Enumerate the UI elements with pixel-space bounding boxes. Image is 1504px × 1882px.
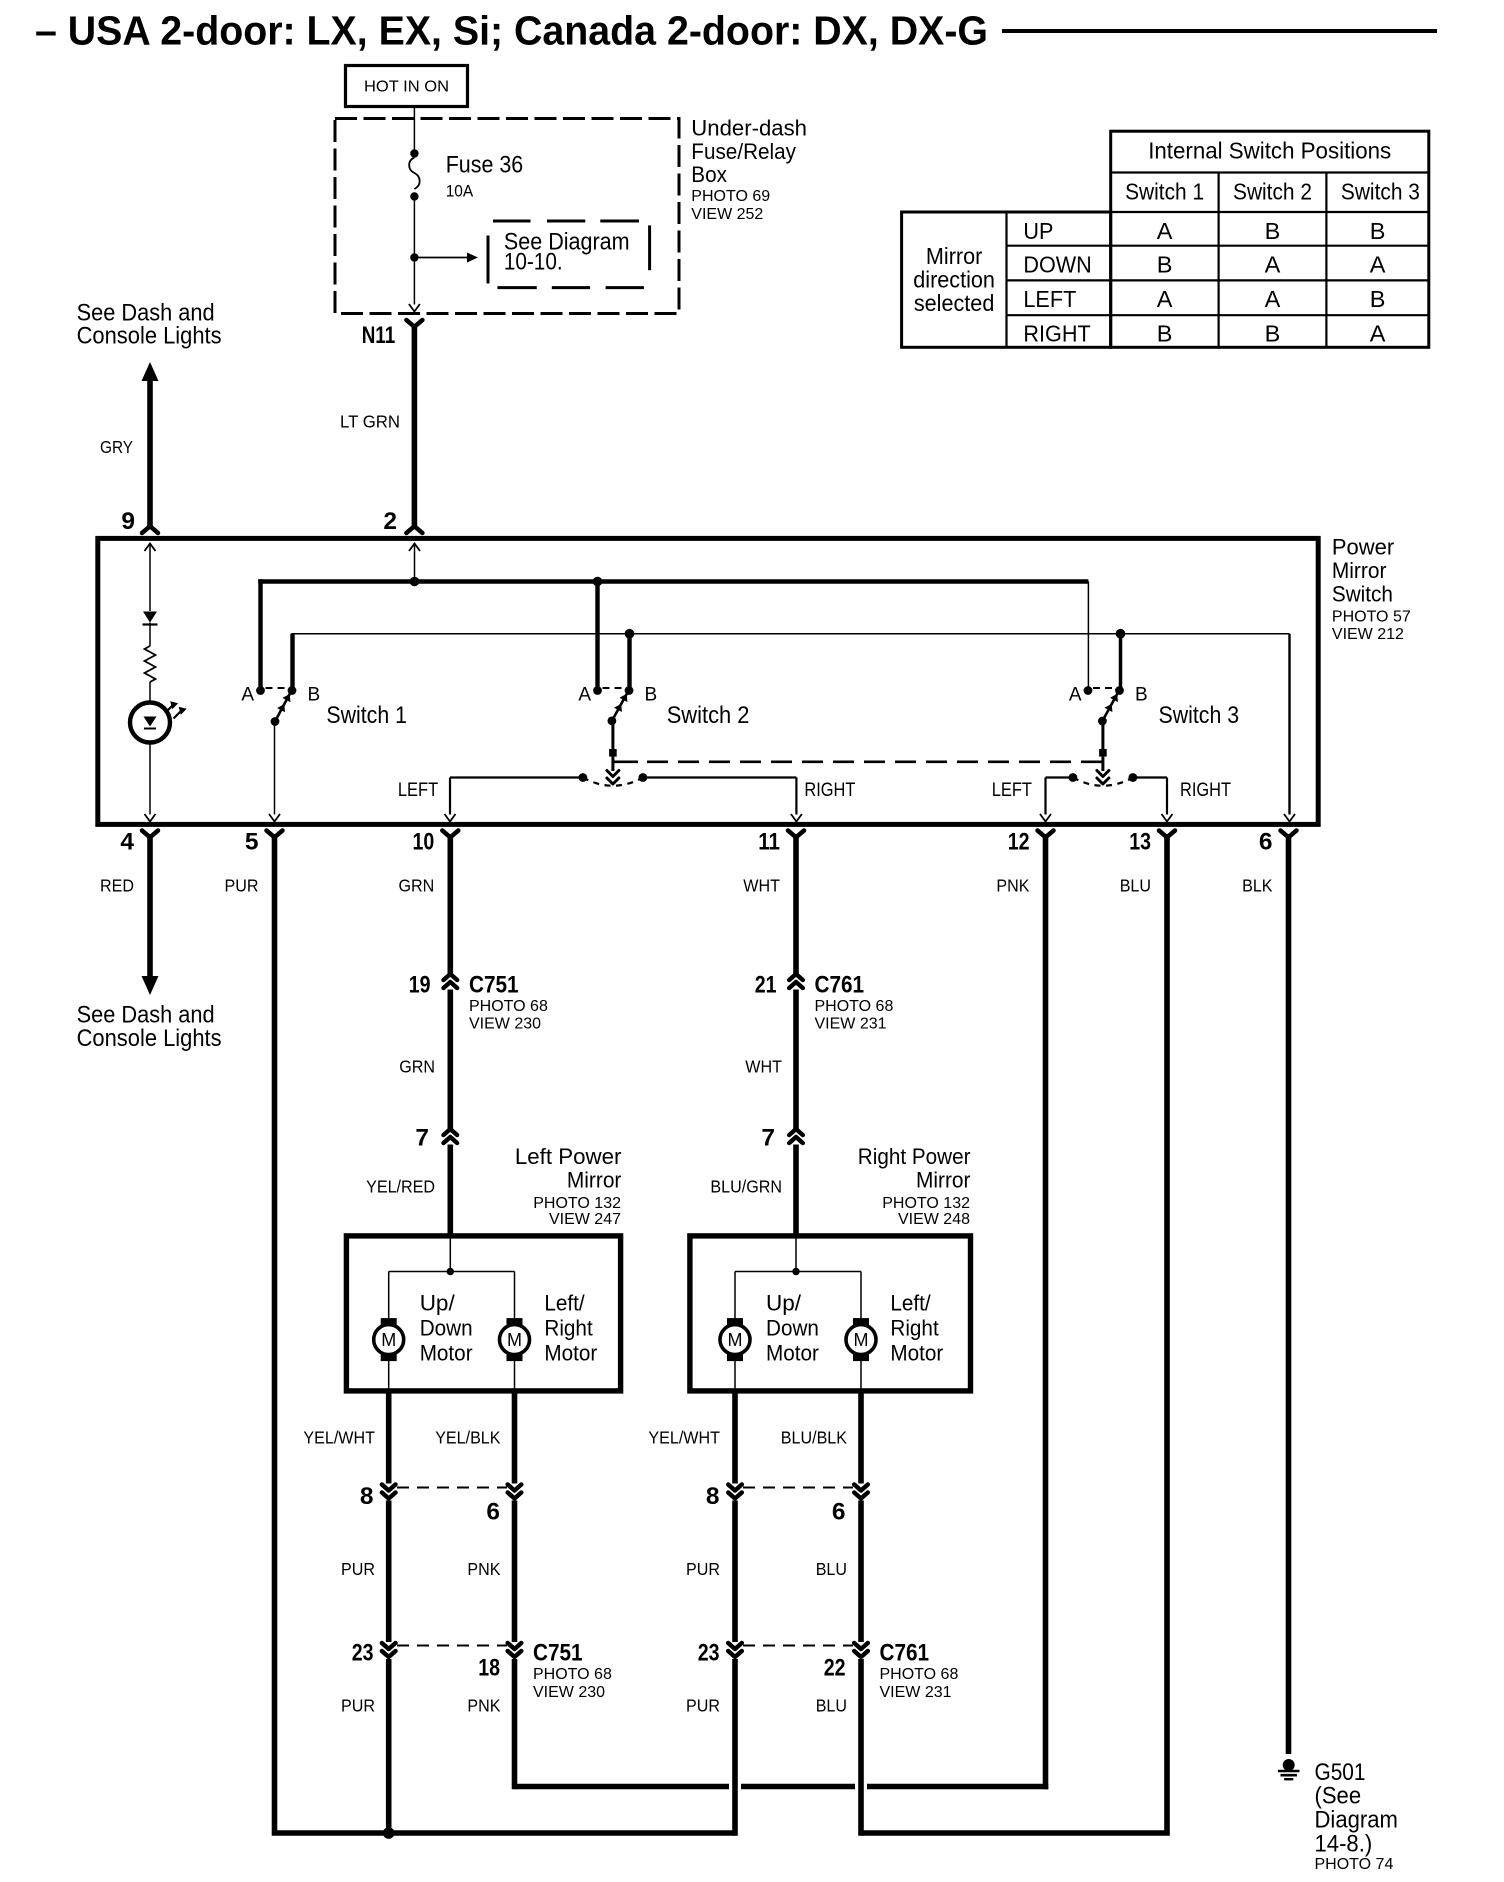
svg-text:VIEW 230: VIEW 230 xyxy=(469,1016,541,1033)
svg-text:12: 12 xyxy=(1008,829,1030,856)
svg-text:PHOTO 57: PHOTO 57 xyxy=(1332,608,1411,625)
svg-text:9: 9 xyxy=(121,508,135,535)
svg-text:BLU/GRN: BLU/GRN xyxy=(710,1177,782,1197)
svg-text:BLU/BLK: BLU/BLK xyxy=(781,1428,847,1448)
svg-text:PHOTO 68: PHOTO 68 xyxy=(880,1666,959,1683)
svg-text:C751: C751 xyxy=(469,972,519,999)
svg-text:A: A xyxy=(1370,321,1386,347)
svg-text:B: B xyxy=(1370,286,1386,312)
svg-text:VIEW 231: VIEW 231 xyxy=(880,1684,952,1701)
svg-text:Up/: Up/ xyxy=(766,1291,802,1316)
svg-text:YEL/BLK: YEL/BLK xyxy=(435,1428,501,1448)
svg-text:6: 6 xyxy=(832,1499,846,1526)
svg-text:Diagram: Diagram xyxy=(1315,1807,1398,1834)
svg-text:PUR: PUR xyxy=(686,1559,720,1579)
svg-text:A: A xyxy=(1265,252,1281,278)
svg-text:N11: N11 xyxy=(362,322,396,349)
svg-text:M: M xyxy=(381,1330,396,1350)
svg-text:BLU: BLU xyxy=(816,1559,847,1579)
svg-text:Mirror: Mirror xyxy=(567,1168,622,1193)
svg-text:B: B xyxy=(1135,685,1148,706)
svg-text:Under-dash: Under-dash xyxy=(691,115,807,140)
svg-text:M: M xyxy=(854,1330,869,1350)
svg-text:B: B xyxy=(1265,321,1281,347)
svg-text:BLU: BLU xyxy=(816,1696,847,1716)
svg-text:WHT: WHT xyxy=(745,1057,782,1077)
svg-text:– USA 2-door: LX, EX, Si; Cana: – USA 2-door: LX, EX, Si; Canada 2-door:… xyxy=(35,8,988,54)
svg-text:RIGHT: RIGHT xyxy=(804,780,855,801)
svg-text:PHOTO 132: PHOTO 132 xyxy=(533,1195,621,1212)
svg-text:Down: Down xyxy=(766,1316,819,1341)
svg-text:RIGHT: RIGHT xyxy=(1180,780,1231,801)
svg-text:C761: C761 xyxy=(815,972,865,999)
svg-text:C761: C761 xyxy=(880,1640,930,1667)
svg-text:VIEW 230: VIEW 230 xyxy=(533,1684,605,1701)
svg-text:10: 10 xyxy=(413,829,435,856)
svg-text:PNK: PNK xyxy=(996,876,1029,896)
svg-text:B: B xyxy=(308,685,321,706)
svg-text:Motor: Motor xyxy=(766,1341,819,1366)
svg-text:A: A xyxy=(1069,685,1082,706)
svg-text:PUR: PUR xyxy=(225,876,259,896)
svg-text:7: 7 xyxy=(761,1125,775,1152)
svg-text:VIEW 247: VIEW 247 xyxy=(549,1211,621,1228)
svg-text:LEFT: LEFT xyxy=(398,780,439,801)
svg-text:PHOTO 69: PHOTO 69 xyxy=(691,188,770,205)
svg-text:A: A xyxy=(1370,252,1386,278)
svg-text:HOT IN ON: HOT IN ON xyxy=(364,79,449,96)
svg-text:DOWN: DOWN xyxy=(1023,252,1091,278)
svg-text:Left Power: Left Power xyxy=(515,1144,622,1169)
svg-text:LT GRN: LT GRN xyxy=(340,412,400,432)
svg-text:Switch 2: Switch 2 xyxy=(667,702,750,729)
svg-text:direction: direction xyxy=(913,267,995,293)
svg-text:Box: Box xyxy=(691,162,727,187)
svg-text:VIEW 252: VIEW 252 xyxy=(691,206,763,223)
svg-text:7: 7 xyxy=(415,1125,429,1152)
svg-text:6: 6 xyxy=(1259,829,1273,856)
svg-text:A: A xyxy=(578,685,591,706)
svg-text:Switch 1: Switch 1 xyxy=(1125,179,1204,205)
svg-text:23: 23 xyxy=(352,1640,374,1667)
svg-text:RIGHT: RIGHT xyxy=(1023,321,1090,347)
svg-text:2: 2 xyxy=(383,508,397,535)
svg-text:A: A xyxy=(1157,286,1173,312)
svg-text:8: 8 xyxy=(360,1483,374,1510)
svg-text:Left/: Left/ xyxy=(890,1291,931,1316)
svg-text:RED: RED xyxy=(100,876,134,896)
svg-text:PUR: PUR xyxy=(341,1696,375,1716)
svg-text:Mirror: Mirror xyxy=(926,243,983,269)
svg-text:Switch 3: Switch 3 xyxy=(1341,179,1420,205)
svg-text:YEL/WHT: YEL/WHT xyxy=(303,1428,375,1448)
svg-text:Console Lights: Console Lights xyxy=(77,323,222,350)
svg-text:B: B xyxy=(1157,252,1173,278)
svg-text:C751: C751 xyxy=(533,1640,583,1667)
svg-text:B: B xyxy=(1157,321,1173,347)
svg-text:Right: Right xyxy=(544,1316,593,1341)
svg-text:Fuse/Relay: Fuse/Relay xyxy=(691,139,796,164)
svg-text:14-8.): 14-8.) xyxy=(1315,1831,1373,1858)
svg-text:PHOTO 74: PHOTO 74 xyxy=(1315,1856,1394,1873)
svg-text:Internal Switch Positions: Internal Switch Positions xyxy=(1148,138,1391,164)
svg-text:UP: UP xyxy=(1023,218,1053,244)
svg-text:Fuse 36: Fuse 36 xyxy=(446,152,524,179)
svg-text:B: B xyxy=(1265,218,1281,244)
svg-text:22: 22 xyxy=(824,1655,846,1682)
svg-text:LEFT: LEFT xyxy=(1023,286,1076,312)
svg-text:B: B xyxy=(645,685,658,706)
svg-text:PNK: PNK xyxy=(467,1559,500,1579)
svg-text:YEL/WHT: YEL/WHT xyxy=(648,1428,720,1448)
svg-text:Console Lights: Console Lights xyxy=(77,1025,222,1052)
svg-text:PUR: PUR xyxy=(341,1559,375,1579)
svg-text:Switch: Switch xyxy=(1332,581,1393,606)
svg-text:M: M xyxy=(728,1330,743,1350)
svg-text:WHT: WHT xyxy=(743,876,780,896)
svg-text:VIEW 248: VIEW 248 xyxy=(898,1211,970,1228)
svg-text:LEFT: LEFT xyxy=(992,780,1033,801)
svg-text:4: 4 xyxy=(120,829,134,856)
svg-text:B: B xyxy=(1370,218,1386,244)
svg-text:Motor: Motor xyxy=(544,1341,597,1366)
svg-text:PHOTO 68: PHOTO 68 xyxy=(469,998,548,1015)
svg-text:BLU: BLU xyxy=(1120,876,1151,896)
svg-text:Right Power: Right Power xyxy=(858,1144,971,1169)
svg-text:19: 19 xyxy=(409,972,431,999)
svg-text:(See: (See xyxy=(1315,1783,1362,1810)
svg-text:18: 18 xyxy=(478,1655,500,1682)
svg-text:VIEW 231: VIEW 231 xyxy=(815,1016,887,1033)
svg-text:Switch 1: Switch 1 xyxy=(326,702,407,729)
svg-text:BLK: BLK xyxy=(1242,876,1273,896)
svg-text:10-10.: 10-10. xyxy=(504,249,563,276)
svg-text:23: 23 xyxy=(698,1640,720,1667)
svg-text:13: 13 xyxy=(1129,829,1151,856)
svg-text:8: 8 xyxy=(706,1483,720,1510)
svg-text:A: A xyxy=(1157,218,1173,244)
svg-text:5: 5 xyxy=(245,829,259,856)
svg-text:Power: Power xyxy=(1332,535,1395,560)
svg-text:GRN: GRN xyxy=(399,876,435,896)
svg-text:Switch 2: Switch 2 xyxy=(1233,179,1312,205)
svg-text:Motor: Motor xyxy=(420,1341,473,1366)
svg-text:PHOTO 132: PHOTO 132 xyxy=(882,1195,970,1212)
svg-text:GRY: GRY xyxy=(100,437,133,457)
svg-text:Up/: Up/ xyxy=(420,1291,456,1316)
svg-text:PHOTO 68: PHOTO 68 xyxy=(533,1666,612,1683)
svg-text:A: A xyxy=(1265,286,1281,312)
svg-text:Left/: Left/ xyxy=(544,1291,585,1316)
svg-text:Switch 3: Switch 3 xyxy=(1159,702,1240,729)
svg-text:YEL/RED: YEL/RED xyxy=(366,1177,435,1197)
svg-text:21: 21 xyxy=(755,972,777,999)
svg-text:selected: selected xyxy=(914,290,995,316)
svg-text:PHOTO 68: PHOTO 68 xyxy=(815,998,894,1015)
svg-text:PNK: PNK xyxy=(467,1696,500,1716)
svg-text:PUR: PUR xyxy=(686,1696,720,1716)
svg-text:A: A xyxy=(241,685,254,706)
svg-text:VIEW 212: VIEW 212 xyxy=(1332,626,1404,643)
svg-text:Right: Right xyxy=(890,1316,939,1341)
svg-text:Down: Down xyxy=(420,1316,473,1341)
svg-text:10A: 10A xyxy=(446,183,474,201)
svg-text:M: M xyxy=(507,1330,522,1350)
svg-text:Motor: Motor xyxy=(890,1341,943,1366)
svg-text:GRN: GRN xyxy=(399,1057,435,1077)
svg-text:Mirror: Mirror xyxy=(916,1168,971,1193)
svg-text:Mirror: Mirror xyxy=(1332,558,1387,583)
svg-text:11: 11 xyxy=(758,829,780,856)
svg-text:6: 6 xyxy=(486,1499,500,1526)
